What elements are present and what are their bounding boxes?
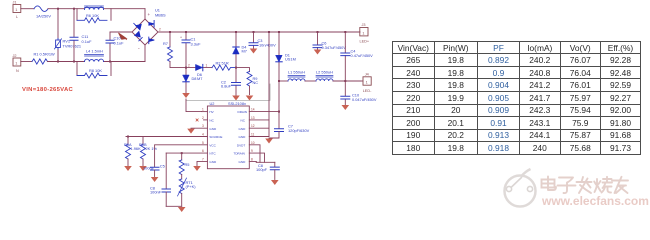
node C11 top	[73, 8, 75, 10]
svg-text:HV: HV	[209, 110, 214, 114]
connector J4 LED-	[363, 72, 372, 93]
ground below C10b	[342, 105, 350, 110]
wire L1 to L2	[305, 80, 316, 82]
svg-text:C5: C5	[160, 164, 165, 169]
ground below gnd chain	[265, 139, 273, 144]
pin 7 stub and ground	[193, 157, 207, 171]
svg-text:D8: D8	[192, 76, 197, 81]
wire node to L1	[279, 80, 288, 82]
svg-text:2: 2	[202, 116, 204, 120]
svg-text:8: 8	[251, 157, 253, 161]
svg-text:10: 10	[251, 141, 255, 145]
diode D6 M7	[186, 63, 212, 81]
svg-text:7: 7	[202, 157, 204, 161]
svg-text:+: +	[148, 12, 151, 17]
pin 8 stub	[249, 157, 256, 162]
wire fuse to bridge, top rail	[48, 8, 145, 10]
net arrow mark (dark red)	[119, 33, 127, 40]
svg-text:J2: J2	[13, 54, 17, 58]
svg-text:LED+: LED+	[360, 40, 370, 44]
svg-text:0.1uF: 0.1uF	[114, 41, 125, 46]
svg-text:3.3uF: 3.3uF	[191, 42, 202, 47]
svg-text:NC: NC	[253, 80, 259, 85]
svg-text:M7: M7	[197, 76, 202, 81]
inductor L2 550uH	[316, 70, 333, 82]
svg-text:3: 3	[202, 124, 204, 128]
svg-text:6: 6	[202, 149, 204, 153]
pin 10 DVDT wire	[249, 141, 260, 163]
inductor L4 1.5mH	[85, 49, 104, 62]
svg-text:GND: GND	[209, 160, 217, 164]
capacitor C4 0.47uF/450V	[341, 31, 373, 81]
svg-text:LED-: LED-	[363, 89, 372, 93]
svg-text:2: 2	[159, 28, 161, 32]
node C10 bottom	[109, 61, 111, 63]
svg-text:SSL2108x: SSL2108x	[228, 101, 246, 106]
svg-text:NC: NC	[241, 119, 246, 123]
node C1/D6/D8	[185, 67, 187, 69]
svg-text:10n/400V: 10n/400V	[259, 43, 276, 48]
svg-text:+: +	[180, 36, 182, 40]
zener diode D8	[183, 68, 197, 93]
svg-text:9: 9	[251, 149, 253, 153]
svg-text:J3: J3	[362, 23, 366, 27]
connector J2	[13, 54, 21, 73]
resistor R1 0.5R/1W	[32, 52, 55, 65]
svg-text:1: 1	[362, 31, 364, 35]
svg-text:MB6S: MB6S	[155, 13, 166, 18]
capacitor C8b (NTC filter)	[150, 153, 171, 206]
connector J1	[13, 1, 21, 19]
svg-text:1: 1	[15, 8, 17, 12]
capacitor C8 100pF	[256, 162, 279, 179]
resistor R8 10K (parallel damping)	[77, 62, 111, 79]
resistor R6 10K (parallel damping)	[77, 9, 111, 23]
resistor R2 51R	[212, 61, 236, 71]
wire bottom rail up to bridge -	[144, 45, 146, 62]
svg-text:R5: R5	[185, 162, 190, 167]
svg-text:2: 2	[188, 63, 190, 67]
svg-text:0.1uF: 0.1uF	[82, 39, 93, 44]
svg-text:GND: GND	[239, 160, 247, 164]
svg-text:R8 10K: R8 10K	[89, 68, 102, 73]
node at RV1 tap	[57, 8, 59, 10]
resistor R3B 2K	[139, 137, 158, 172]
svg-text:www.elecfans.com: www.elecfans.com	[541, 194, 649, 208]
svg-text:100nF: 100nF	[143, 166, 155, 171]
node C11 bottom	[73, 61, 75, 63]
varistor RV1 TVR07621	[55, 9, 82, 62]
svg-text:NTC: NTC	[209, 152, 216, 156]
connector J3 LED+	[360, 23, 370, 44]
inductor L1 550uH	[288, 70, 305, 82]
pin 4 SOURCE wire	[126, 133, 207, 137]
diode D1 US1M (freewheel)	[276, 31, 296, 81]
capacitor C5 100nF	[143, 164, 165, 183]
svg-text:TDRAIN: TDRAIN	[234, 152, 245, 156]
svg-text:100pF: 100pF	[256, 167, 268, 172]
wire rail down (to IC gnd chain)	[268, 31, 270, 136]
gray annotation line	[186, 84, 270, 100]
svg-text:L2 550uH: L2 550uH	[316, 70, 333, 75]
svg-text:J4: J4	[365, 72, 369, 76]
svg-text:L: L	[16, 15, 18, 19]
capacitor C11 0.1uF	[70, 9, 92, 62]
capacitor C2 6.8uF	[221, 68, 241, 95]
capacitor C3 10n/400V	[249, 31, 276, 48]
svg-text:0.47uF/450V: 0.47uF/450V	[351, 53, 374, 58]
IC U2 SSL2108x	[207, 101, 249, 169]
power arrow below D8	[182, 93, 190, 98]
node RV1 bottom	[57, 61, 59, 63]
elecfans watermark	[492, 163, 650, 217]
svg-text:-: -	[138, 46, 140, 52]
hanzi 电子发烧友 drawn as paths	[542, 177, 629, 194]
wire J2 to R1	[21, 61, 32, 63]
svg-text:2K 1%: 2K 1%	[146, 146, 158, 151]
pin 9 TDRAIN wire	[249, 149, 264, 162]
pin 1 stub	[202, 108, 208, 112]
pin 11 stub	[249, 133, 269, 137]
svg-text:120pF/630V: 120pF/630V	[288, 128, 310, 133]
svg-text:1: 1	[15, 62, 17, 66]
svg-text:11: 11	[251, 133, 255, 137]
capacitor C10b 0.047uF/450V (output)	[341, 81, 377, 105]
svg-text:0.347uF/450V: 0.347uF/450V	[322, 45, 347, 50]
svg-text:GND: GND	[209, 127, 217, 131]
svg-text:N: N	[16, 69, 19, 73]
svg-text:R7: R7	[163, 41, 168, 46]
bridge rectifier U1 MB6S	[132, 8, 166, 52]
thermistor RT1	[178, 175, 197, 207]
svg-text:6.8uF: 6.8uF	[221, 84, 232, 89]
data table	[392, 41, 640, 147]
bottom rail wire	[48, 61, 146, 63]
svg-text:13: 13	[251, 116, 255, 120]
fuse F1 1A/250V	[34, 6, 51, 18]
wire L2 to C4 node	[333, 80, 361, 82]
svg-text:GND: GND	[239, 127, 247, 131]
capacitor C7 120pF/630V	[269, 111, 310, 138]
svg-text:4: 4	[202, 133, 204, 137]
pin 12 stub	[249, 124, 269, 128]
svg-text:M7: M7	[242, 49, 247, 54]
svg-text:U2: U2	[210, 101, 215, 106]
svg-text:1A/250V: 1A/250V	[36, 13, 51, 18]
svg-text:12: 12	[251, 124, 255, 128]
ground below C3	[250, 49, 258, 54]
svg-text:1: 1	[202, 108, 204, 112]
svg-text:TVR07621: TVR07621	[63, 44, 82, 49]
ground below C6	[314, 50, 322, 55]
svg-text:VIN=180-265VAC: VIN=180-265VAC	[22, 87, 74, 93]
inductor L3 (filter choke)	[85, 6, 104, 10]
pin 3 stub and ground	[187, 124, 207, 133]
node C4 bottom / J4	[344, 80, 346, 82]
svg-text:GND: GND	[239, 135, 247, 139]
wire J1 to fuse	[21, 8, 34, 10]
pin 14 DRAIN wire	[249, 81, 279, 112]
wire D8 node to pin 1 HV	[186, 99, 202, 112]
wire bridge left corner to C10	[110, 31, 132, 33]
resistor R3A 1.96K	[124, 136, 141, 172]
svg-text:R6 10K: R6 10K	[86, 13, 99, 18]
NTC bottom wire and ground	[166, 206, 185, 212]
ground below C2	[232, 96, 240, 101]
svg-text:5: 5	[202, 141, 204, 145]
svg-text:DVDT: DVDT	[237, 143, 245, 147]
svg-text:14: 14	[251, 108, 255, 112]
svg-text:L4 1.5mH: L4 1.5mH	[86, 49, 103, 54]
wire rail down to bridge +	[144, 9, 146, 19]
svg-text:SOURCE: SOURCE	[209, 135, 222, 139]
pin 5 VCC wire	[155, 141, 208, 167]
diode D4 M7 (to rail)	[233, 31, 248, 68]
node drain/L1	[278, 80, 280, 82]
resistor R5	[179, 152, 189, 174]
resistor R9 NC	[236, 68, 258, 95]
wire J4	[361, 80, 363, 82]
svg-text:100nF: 100nF	[150, 190, 162, 195]
svg-text:VCC: VCC	[209, 143, 216, 147]
capacitor C10 0.1uF (X-cap)	[106, 32, 124, 62]
capacitor C6 0.347uF/450V	[313, 31, 346, 50]
ground below R9	[246, 96, 254, 101]
ground below C8	[271, 180, 279, 185]
pin 13 stub	[249, 116, 269, 120]
pin 2 stub (NC, x mark)	[196, 116, 207, 121]
svg-text:1: 1	[366, 81, 368, 85]
svg-text:J1: J1	[13, 1, 17, 5]
svg-text:DRAIN: DRAIN	[238, 110, 247, 114]
svg-text:R1 0.5R/1W: R1 0.5R/1W	[34, 52, 56, 57]
svg-text:(P+K): (P+K)	[186, 184, 197, 189]
capacitor C1 3.3uF	[180, 31, 201, 68]
svg-text:0.047uF/450V: 0.047uF/450V	[352, 97, 377, 102]
svg-text:NC: NC	[209, 119, 214, 123]
main HV rail	[158, 31, 360, 33]
svg-text:1: 1	[206, 63, 208, 67]
node R2/C2/D4	[235, 67, 237, 69]
svg-text:L1 550uH: L1 550uH	[288, 70, 305, 75]
pin 6 NTC wire	[166, 149, 207, 153]
resistor R7	[163, 31, 185, 68]
svg-text:US1M: US1M	[285, 57, 296, 62]
svg-text:R2 51R: R2 51R	[216, 61, 229, 66]
